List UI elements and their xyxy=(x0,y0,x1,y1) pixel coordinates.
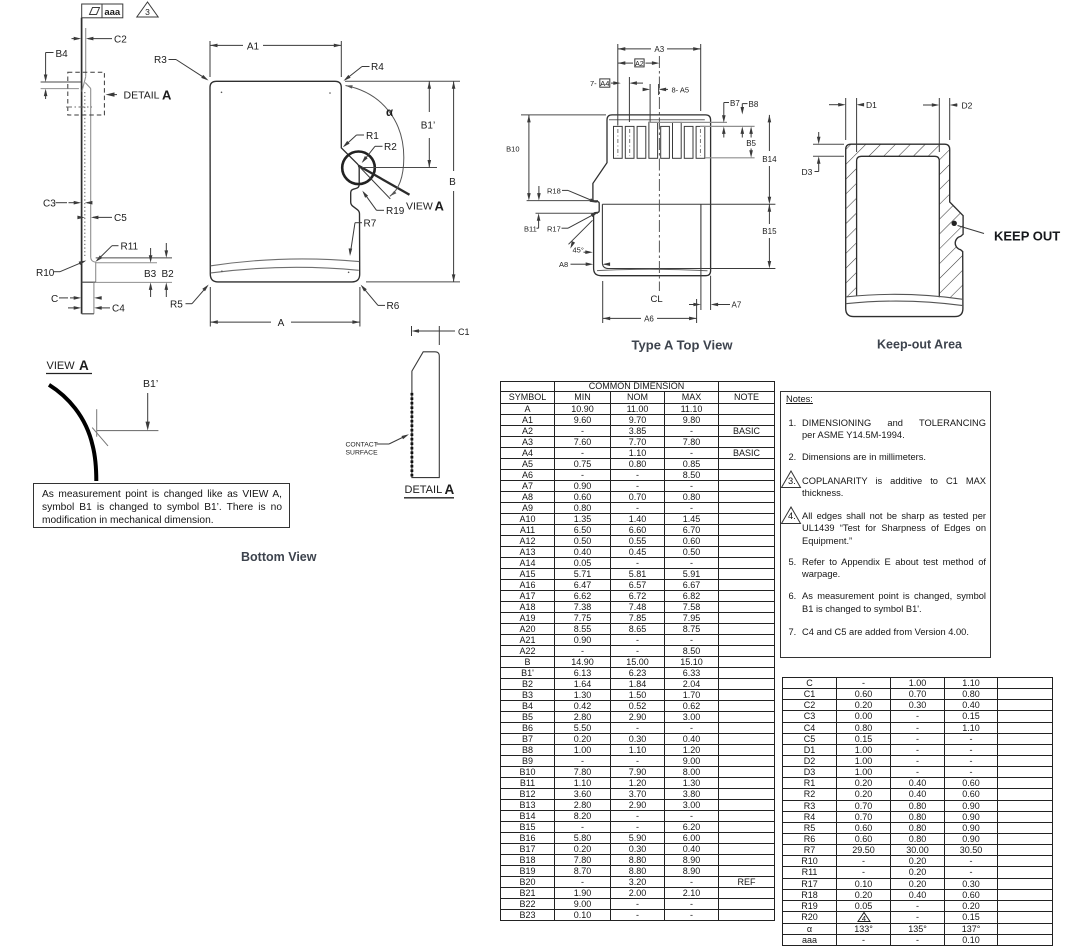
dimension C4 xyxy=(68,304,125,315)
svg-text:R19: R19 xyxy=(386,206,405,217)
front view thumb groove arc lower xyxy=(211,267,359,273)
svg-text:C2: C2 xyxy=(114,34,127,45)
DETAIL A view box (dashed) xyxy=(68,72,105,115)
caption Bottom View xyxy=(241,550,316,564)
radius label R10 side view xyxy=(36,261,86,279)
front view thumb groove arc R7 upper xyxy=(211,259,359,266)
VIEW A secondary line xyxy=(358,166,390,199)
svg-text:α: α xyxy=(386,107,393,119)
DETAIL A pointer label xyxy=(106,87,173,102)
note 4 xyxy=(802,510,986,547)
side view bottom step profile R11/R10 xyxy=(91,257,96,282)
detail circle at R2 corner xyxy=(342,152,375,185)
dimension A1 xyxy=(210,41,341,77)
svg-text:C: C xyxy=(51,294,58,305)
radius label R2 xyxy=(362,142,398,163)
dimensions B3 B2 extension lines xyxy=(96,258,172,283)
dimension A2 (basic) xyxy=(618,59,660,68)
svg-text:R4: R4 xyxy=(371,62,384,73)
radius label R19 xyxy=(362,191,404,217)
svg-text:B14: B14 xyxy=(762,155,777,164)
detail A enlarged edge outline xyxy=(412,352,439,478)
pad bottom extension line xyxy=(706,157,755,159)
svg-text:Keep-out Area: Keep-out Area xyxy=(877,338,963,352)
45 degree chamfer note xyxy=(569,220,593,254)
svg-text:B11: B11 xyxy=(524,224,537,233)
pad top extension line regular xyxy=(700,125,755,127)
dimension C xyxy=(51,294,102,305)
side view notch diagonal xyxy=(82,77,86,92)
side view bottom surface xyxy=(82,281,96,283)
top edge extension line xyxy=(345,80,460,82)
inner rect top extension to B14/B15 xyxy=(602,203,775,205)
dimension B5 xyxy=(746,126,756,157)
side view bottom tab front line xyxy=(93,282,95,314)
svg-text:R6: R6 xyxy=(387,301,400,312)
front view card outline xyxy=(210,81,360,282)
dimension 7-A4 (basic) xyxy=(590,77,643,122)
notch extension upper xyxy=(527,200,598,202)
svg-text:C3: C3 xyxy=(43,199,56,210)
note 2 xyxy=(802,451,986,463)
svg-text:B1’: B1’ xyxy=(143,378,158,390)
top edge extension left (B10) xyxy=(521,114,606,116)
dimension B1p view A xyxy=(143,378,158,431)
angle dimension arc alpha xyxy=(346,86,404,197)
radius label R17 top view xyxy=(547,212,598,233)
svg-text:C5: C5 xyxy=(114,213,127,224)
svg-text:R2: R2 xyxy=(384,142,397,153)
front view center marks xyxy=(221,92,223,94)
pad top extension line tall xyxy=(648,121,727,123)
keep-out outer outline xyxy=(846,144,963,316)
dimension A6 xyxy=(603,281,697,323)
side view contact surface dotted line xyxy=(84,92,86,256)
radius label R1 xyxy=(343,131,379,148)
side view back surface line xyxy=(81,18,83,314)
svg-text:A: A xyxy=(278,318,285,329)
dimension B14 xyxy=(762,115,777,204)
svg-text:aaa: aaa xyxy=(104,7,121,18)
feature control frame (flatness | aaa) xyxy=(82,4,123,18)
notch extension lower xyxy=(536,212,599,214)
svg-text:A7: A7 xyxy=(732,301,742,310)
detail A centerline xyxy=(66,106,92,108)
svg-text:8- A5: 8- A5 xyxy=(672,85,690,94)
dimension A3 xyxy=(618,44,701,126)
keep-out top wall hatch xyxy=(846,144,950,156)
dimension A xyxy=(210,287,360,329)
side view upper front line xyxy=(85,28,87,77)
svg-text:A2: A2 xyxy=(635,61,644,68)
note 6 xyxy=(802,590,986,615)
svg-text:CL: CL xyxy=(651,294,663,305)
svg-text:B4: B4 xyxy=(56,49,69,60)
top view inner top line xyxy=(609,119,705,121)
svg-text:Type A Top View: Type A Top View xyxy=(632,337,734,352)
dimension B10 xyxy=(506,115,531,201)
VIEW A tangent tick xyxy=(96,409,98,437)
bottom edge extension line xyxy=(366,281,460,283)
svg-text:R10: R10 xyxy=(36,268,55,279)
svg-text:R7: R7 xyxy=(364,219,377,230)
svg-text:B3: B3 xyxy=(144,269,157,280)
svg-text:VIEW: VIEW xyxy=(47,360,76,372)
note 3 xyxy=(802,475,986,500)
svg-text:VIEW: VIEW xyxy=(406,201,433,213)
svg-text:A3: A3 xyxy=(654,45,664,54)
dimension B1p xyxy=(421,81,435,167)
svg-text:SURFACE: SURFACE xyxy=(346,450,379,457)
svg-text:B8: B8 xyxy=(749,100,759,109)
svg-text:CONTACT: CONTACT xyxy=(346,442,378,449)
svg-text:4: 4 xyxy=(861,914,865,922)
svg-text:45°: 45° xyxy=(573,246,584,255)
notes title xyxy=(786,393,813,405)
B1p reference line xyxy=(362,167,437,169)
dimension B3 xyxy=(144,248,157,297)
radius label R5 xyxy=(170,285,209,311)
svg-text:A4: A4 xyxy=(600,79,609,88)
DETAIL A title bottom xyxy=(404,482,455,498)
inner rect bottom extension xyxy=(701,268,776,270)
VIEW A crossing tick xyxy=(92,428,108,446)
svg-text:D2: D2 xyxy=(962,101,973,111)
dimension C1 xyxy=(412,326,470,345)
radius label R11 side view xyxy=(96,242,139,262)
view A note box xyxy=(33,483,290,528)
svg-text:A: A xyxy=(445,482,455,497)
radius label R18 top view xyxy=(547,186,597,202)
svg-text:B7: B7 xyxy=(730,99,740,108)
dimension A7 xyxy=(689,269,742,311)
svg-text:B2: B2 xyxy=(162,269,175,280)
dimension D1 xyxy=(829,98,877,152)
svg-text:A: A xyxy=(435,198,445,213)
radius label R3 xyxy=(154,55,209,81)
keep out dot and leader xyxy=(952,221,1061,244)
radius label R4 xyxy=(344,62,385,81)
svg-text:R1: R1 xyxy=(366,131,379,142)
svg-text:A8: A8 xyxy=(559,260,568,269)
svg-text:7-: 7- xyxy=(590,79,597,88)
radius label R7 xyxy=(349,219,377,257)
svg-text:A6: A6 xyxy=(644,314,654,323)
keep-out bottom arc upper xyxy=(846,294,963,299)
svg-text:B: B xyxy=(449,177,456,188)
general note triangle 3 xyxy=(137,2,158,17)
common dimension table xyxy=(500,381,775,921)
svg-text:3: 3 xyxy=(145,7,150,17)
svg-text:A1: A1 xyxy=(247,41,260,52)
keep-out left wall hatch xyxy=(846,156,857,297)
dimension A8 xyxy=(559,260,610,269)
radius label R6 xyxy=(361,285,400,312)
svg-text:B5: B5 xyxy=(746,139,756,148)
dimension D2 xyxy=(923,98,973,152)
dimension D3 xyxy=(802,132,845,177)
side view lower front line xyxy=(90,89,92,258)
svg-text:A: A xyxy=(79,358,89,373)
dimension B11 xyxy=(524,186,541,233)
dimension B2 xyxy=(162,243,175,297)
dimension B7 xyxy=(722,99,740,138)
VIEW A title xyxy=(46,358,92,374)
svg-text:R11: R11 xyxy=(121,242,139,253)
svg-text:A: A xyxy=(162,87,172,102)
note 4 triangle xyxy=(780,506,802,525)
side view notch chamfer xyxy=(85,83,91,89)
svg-text:D3: D3 xyxy=(802,167,813,177)
note 1 xyxy=(802,417,986,442)
svg-text:DETAIL: DETAIL xyxy=(405,484,443,496)
svg-text:C4: C4 xyxy=(112,304,125,315)
dimension B xyxy=(449,81,456,282)
dimension B4 xyxy=(41,49,81,99)
C/D/R dimension table xyxy=(782,677,1053,946)
svg-text:D1: D1 xyxy=(866,100,877,110)
keep-out bottom arc lower xyxy=(846,301,963,306)
svg-text:R17: R17 xyxy=(547,224,561,233)
svg-text:B1’: B1’ xyxy=(421,121,435,132)
keep-out inner wall outline xyxy=(857,156,940,297)
svg-text:B15: B15 xyxy=(762,227,777,236)
svg-text:KEEP OUT: KEEP OUT xyxy=(994,229,1060,244)
top view card outline xyxy=(593,115,711,276)
VIEW A sight line thick xyxy=(358,166,409,195)
dimension B15 xyxy=(762,204,777,268)
svg-text:R5: R5 xyxy=(170,300,183,311)
top view inner bottom arc xyxy=(597,269,708,271)
svg-text:B10: B10 xyxy=(506,145,519,154)
top view inner contact area rectangle xyxy=(602,204,701,268)
dimension C3 xyxy=(43,199,92,210)
note 5 xyxy=(802,556,986,581)
side view bottom edge xyxy=(82,313,94,315)
detail A contact surface thick dashed edge xyxy=(410,393,413,477)
svg-text:R18: R18 xyxy=(547,186,561,195)
svg-text:R3: R3 xyxy=(154,55,167,66)
contact pads xyxy=(614,126,623,158)
center line CL xyxy=(658,56,660,291)
pad centerline dashes xyxy=(617,129,619,156)
note 3 triangle xyxy=(780,470,802,489)
dimension C5 xyxy=(77,213,127,224)
contact surface label xyxy=(346,434,410,456)
VIEW A measurement reference line xyxy=(97,430,159,432)
svg-text:C1: C1 xyxy=(458,327,470,337)
keep-out right wall hatch xyxy=(939,156,963,298)
notes box xyxy=(780,391,991,658)
dimension C2 xyxy=(72,34,128,45)
svg-text:DETAIL: DETAIL xyxy=(124,90,160,102)
note 7 xyxy=(802,626,986,638)
dimension 8-A5 xyxy=(643,84,689,122)
dimension B8 xyxy=(741,100,759,138)
VIEW A label front view xyxy=(406,198,445,213)
VIEW A profile curve xyxy=(49,385,96,481)
